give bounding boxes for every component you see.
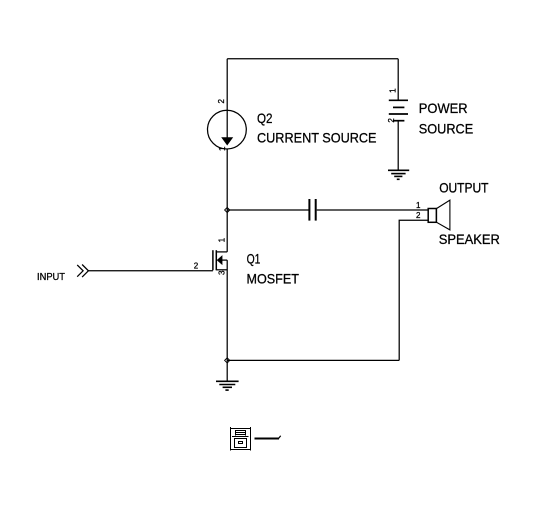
current source Q2 arrow (226, 110, 228, 138)
wire bottom horizontal (227, 359, 399, 361)
wire current source top vertical (226, 59, 228, 110)
svg-text:1: 1 (217, 237, 226, 242)
transistor Q1 source lead (216, 269, 227, 271)
wire current source to junction vertical (226, 149, 228, 252)
svg-text:1: 1 (416, 201, 421, 210)
wire battery top vertical (397, 59, 399, 100)
wire junction B to ground (226, 360, 228, 381)
svg-text:3: 3 (217, 270, 226, 275)
svg-text:1: 1 (218, 146, 227, 151)
transistor Q1 MOSFET drain lead (216, 251, 227, 253)
caption 一 (one) (255, 436, 281, 439)
port INPUT chevrons (77, 265, 83, 277)
svg-text:Q1: Q1 (247, 251, 261, 266)
svg-text:2: 2 (217, 99, 226, 104)
svg-text:2: 2 (387, 118, 396, 123)
svg-text:2: 2 (194, 261, 199, 270)
svg-text:MOSFET: MOSFET (247, 271, 300, 286)
junction A (drain node) (225, 207, 230, 212)
svg-text:Q2: Q2 (257, 111, 273, 126)
svg-text:CURRENT SOURCE: CURRENT SOURCE (257, 131, 377, 146)
wire node A to capacitor (227, 209, 308, 211)
svg-text:POWER: POWER (419, 101, 468, 116)
svg-text:OUTPUT: OUTPUT (439, 181, 489, 196)
wire input to gate (88, 270, 212, 272)
svg-text:SOURCE: SOURCE (419, 121, 473, 136)
junction B (source node) (225, 358, 230, 363)
wire battery bottom vertical (397, 121, 399, 170)
ground (left) (216, 381, 239, 390)
capacitor C1 plates (309, 199, 315, 221)
wire Q1 source vertical (226, 260, 228, 360)
caption 圖 (figure) (230, 427, 251, 450)
svg-text:SPEAKER: SPEAKER (439, 232, 500, 247)
svg-text:2: 2 (416, 211, 421, 220)
speaker LS1 body (428, 209, 436, 223)
battery B1 POWER SOURCE plates (389, 100, 408, 120)
wire capacitor to speaker pin1 (317, 209, 429, 211)
current source Q2 circle (208, 110, 247, 149)
wire top horizontal (227, 58, 398, 60)
transistor Q1 bulk arrow lead (222, 259, 228, 261)
svg-text:1: 1 (389, 88, 398, 93)
speaker LS1 horn (436, 200, 450, 230)
ground (battery) (388, 170, 409, 179)
wire speaker pin2 (399, 220, 428, 360)
svg-text:INPUT: INPUT (37, 272, 65, 283)
transistor Q1 channel bar (215, 250, 217, 270)
transistor Q1 gate bar (212, 250, 214, 270)
